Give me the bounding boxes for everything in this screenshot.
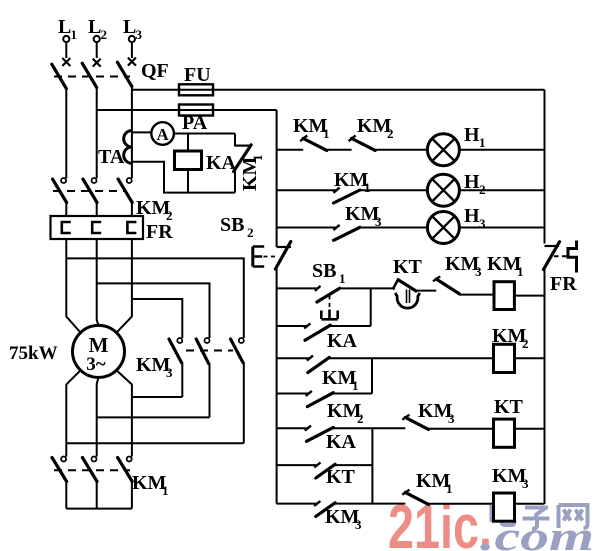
wire lamp row 1 <box>277 149 545 151</box>
node right control bus upper <box>544 90 546 244</box>
wire motor bottom terminal 1 <box>66 371 80 457</box>
svg-text:FU: FU <box>184 64 211 86</box>
contactor KM3 pole B <box>196 338 209 417</box>
contact KM1 NC row 1 <box>300 135 327 150</box>
wire KM3 pole B to motor branch <box>97 416 210 418</box>
contact KM2 NO row D label <box>327 400 364 426</box>
node L2 label <box>88 16 107 42</box>
svg-text:L: L <box>88 16 101 38</box>
node L1 label <box>58 16 77 42</box>
svg-text:H: H <box>464 205 480 227</box>
watermark chinese char dian <box>492 503 515 525</box>
lamp H2 <box>427 174 459 206</box>
svg-text:TA: TA <box>98 146 125 168</box>
svg-text:QF: QF <box>141 60 169 82</box>
contactor KM2 linkage dashed <box>53 190 126 192</box>
wire phase1 tap to KM3 pole C <box>66 258 244 338</box>
wire KA branch top <box>187 134 189 152</box>
terminal circle L3 <box>129 36 135 42</box>
thermal relay FR heater element 1 <box>62 222 71 233</box>
current transformer TA <box>124 131 132 164</box>
contact KM2 NC row 1 label <box>357 115 394 141</box>
node right control bus lower <box>544 270 546 505</box>
svg-text:KA: KA <box>326 431 357 453</box>
contact KM3 NO row G <box>314 501 335 517</box>
svg-text:2: 2 <box>522 336 529 351</box>
contact KA NO row B <box>304 323 330 340</box>
svg-text:A: A <box>156 125 169 144</box>
wire coil KM3 to right bus <box>515 503 545 505</box>
contact KM1 normally-closed vertical <box>234 134 252 193</box>
wire motor bottom terminal 3 <box>117 371 132 457</box>
svg-text:1: 1 <box>352 378 359 393</box>
contactor KM1 linkage dashed <box>54 469 130 471</box>
contactor KM2 pole 2 <box>83 178 97 216</box>
contact KM1 NO row C <box>307 356 330 373</box>
thermal overload relay FR box <box>51 216 144 239</box>
svg-text:KA: KA <box>206 152 237 174</box>
motor M circle <box>73 325 125 377</box>
svg-text:KT: KT <box>494 396 524 418</box>
contact KA NO row E <box>305 426 334 442</box>
wire phase3 tap to KM3 pole A <box>132 299 182 338</box>
wire phase1 QF to KM2 <box>65 88 67 178</box>
wire ammeter to KM1 branch <box>174 133 235 135</box>
wire phase3 FR to motor <box>117 239 132 332</box>
wire coil KT to right bus <box>515 428 545 430</box>
svg-text:SB: SB <box>312 260 336 282</box>
lamp H2 label <box>464 171 486 197</box>
contactor KM2 label <box>136 197 173 223</box>
wire motor bottom terminal 2 <box>97 377 99 456</box>
wire coil KM1 to right bus <box>514 295 544 297</box>
pushbutton SB2 normally-closed <box>253 242 291 270</box>
wire row G KM1 to coil KM3 <box>428 503 494 505</box>
svg-text:3: 3 <box>136 27 143 42</box>
contactor KM3 pole C <box>231 338 244 443</box>
svg-text:1: 1 <box>323 126 330 141</box>
wire row A start to SB1 <box>277 287 318 289</box>
wire L2 stub <box>96 42 98 58</box>
svg-text:KT: KT <box>393 256 423 278</box>
thermal relay FR contact on right bus <box>544 241 577 273</box>
wire phase2 QF to KM2 <box>96 87 98 178</box>
wire TA to ammeter <box>132 131 152 133</box>
contactor coil KM2 label <box>492 325 529 351</box>
svg-text:21ic.: 21ic. <box>388 493 492 551</box>
svg-text:1: 1 <box>162 483 169 498</box>
contactor coil KM3 <box>494 493 515 521</box>
contact KM1 NO row 2 <box>333 188 360 203</box>
contactor KM3 pole A <box>169 338 182 397</box>
fuse FU1 <box>179 84 213 95</box>
node left control bus <box>276 110 278 247</box>
pushbutton SB2 label <box>220 214 254 240</box>
relay coil KA <box>175 151 202 170</box>
contactor coil KM1 <box>494 282 514 310</box>
wire vertical V2 row C to row D <box>371 358 373 393</box>
time relay coil KT <box>494 419 515 447</box>
wire KM3 pole A to motor branch <box>132 396 182 398</box>
svg-text:3: 3 <box>479 216 486 231</box>
lamp H1 label <box>464 124 486 150</box>
wire row A SB1 to KT <box>339 287 395 289</box>
svg-text:1: 1 <box>517 264 524 279</box>
contact KM1 NC row G <box>402 490 428 505</box>
contact KM2 NO row D <box>306 391 334 407</box>
svg-text:3: 3 <box>166 365 173 380</box>
wire KM3 pole C to motor branch <box>66 442 244 444</box>
pushbutton SB1 normally-open <box>315 286 340 319</box>
wire row E KM3 to coil KT <box>428 428 494 430</box>
wire L1 stub <box>65 42 67 58</box>
svg-text:1: 1 <box>250 155 265 162</box>
contact KM1 NC row G label <box>416 470 453 496</box>
svg-text:1: 1 <box>446 481 453 496</box>
contact KM3 NC row E <box>402 415 428 430</box>
svg-text:KT: KT <box>326 466 356 488</box>
svg-text:3~: 3~ <box>86 354 106 375</box>
wire parallel branch vertical V1 <box>370 288 372 326</box>
contactor KM3 label <box>136 354 173 380</box>
wire row D KM2 <box>277 393 372 395</box>
wire phase2 tap to fuse FU2 <box>97 109 277 111</box>
terminal circle L2 <box>94 36 100 42</box>
thermal relay FR heater element 2 <box>92 222 101 233</box>
contactor KM3 linkage dashed <box>186 350 233 352</box>
pushbutton SB1 label <box>312 260 346 286</box>
wire row G KM3 contact <box>277 503 406 505</box>
time relay KT delayed closing contact <box>393 278 420 308</box>
wire L3 stub <box>131 42 133 58</box>
svg-text:FR: FR <box>550 273 577 295</box>
node L3 label <box>123 16 143 42</box>
svg-text:KA: KA <box>327 330 358 352</box>
contact KM1 NO row 2 label <box>334 169 371 195</box>
svg-text:1: 1 <box>339 271 346 286</box>
svg-text:1: 1 <box>479 135 486 150</box>
wire coil KM2 to right bus <box>515 357 545 359</box>
svg-text:1: 1 <box>364 180 371 195</box>
breaker QF pole 2 <box>82 59 101 88</box>
wire row B KA <box>277 325 371 327</box>
wire row C KM1 to coil KM2 <box>277 357 494 359</box>
contact KM3 NC row A <box>433 276 459 294</box>
contactor coil KM2 <box>494 344 515 372</box>
breaker QF pole 3 <box>117 58 135 87</box>
svg-text:3: 3 <box>355 517 362 532</box>
fuse FU2 <box>179 105 213 116</box>
lamp H3 <box>427 212 459 244</box>
contact KM1 NC row 1 label <box>293 115 330 141</box>
svg-text:H: H <box>464 124 480 146</box>
wire phase3 tap to fuse FU1 <box>132 89 545 91</box>
wire phase1 FR to motor <box>66 239 80 332</box>
wire lamp row 3 <box>277 227 545 229</box>
svg-text:3: 3 <box>375 214 382 229</box>
contactor KM2 pole 1 <box>53 178 67 216</box>
contact KM1 NO row C label <box>322 367 359 393</box>
wire phase2 FR to motor <box>97 239 99 325</box>
svg-text:3: 3 <box>448 411 455 426</box>
wire row F KT contact <box>277 464 373 466</box>
svg-text:3: 3 <box>475 264 482 279</box>
contactor KM1 label <box>132 472 169 498</box>
svg-text:H: H <box>464 171 480 193</box>
wire row A KT to KM3 <box>416 290 437 292</box>
wire row A KM3 to coil KM1 <box>459 294 494 296</box>
svg-text:2: 2 <box>101 27 108 42</box>
contact KM3 NO row 3 <box>333 225 360 240</box>
lamp H3 label <box>464 205 486 231</box>
contactor coil KM1 label <box>487 253 524 279</box>
contact KM3 NO row 3 label <box>345 203 382 229</box>
terminal circle L1 <box>63 36 69 42</box>
svg-text:L: L <box>58 16 71 38</box>
lamp H1 <box>427 134 459 166</box>
contact KM3 NC row E label <box>418 400 455 426</box>
wire phase2 tap to KM3 pole B <box>97 283 210 338</box>
svg-text:PA: PA <box>182 112 208 134</box>
watermark chinese char wang <box>559 505 588 528</box>
contact KM3 NO row G label <box>325 506 362 532</box>
contactor coil KM3 label <box>492 465 529 491</box>
contact KM3 NC row A label <box>445 253 482 279</box>
contactor KM1 pole 1 <box>52 457 67 509</box>
wire vertical V3 rows E F G <box>371 428 373 503</box>
svg-text:1: 1 <box>71 27 78 42</box>
watermark chinese char zi <box>523 508 550 530</box>
contact KM2 NC row 1 <box>349 135 376 150</box>
svg-text:3: 3 <box>522 476 529 491</box>
wire row E KA to KM3 <box>277 427 406 429</box>
svg-text:FR: FR <box>146 221 173 243</box>
wire TA secondary bottom <box>132 162 235 193</box>
breaker QF linkage dashed <box>54 76 130 78</box>
breaker QF pole 1 <box>52 58 71 89</box>
wire KM1 star bridge <box>66 508 132 510</box>
contact KT NO row F <box>314 463 335 479</box>
ammeter PA circle <box>151 122 174 145</box>
svg-text:SB: SB <box>220 214 244 236</box>
node left control bus lower <box>276 269 278 504</box>
svg-text:2: 2 <box>387 126 394 141</box>
svg-text:L: L <box>123 16 136 38</box>
wire phase3 QF to KM2 <box>131 86 133 178</box>
thermal relay FR heater element 3 <box>127 222 136 233</box>
svg-text:75kW: 75kW <box>9 343 58 364</box>
contact KM1 vertical label <box>239 155 265 192</box>
wire lamp row 2 <box>277 189 545 191</box>
wire KA branch bottom <box>187 170 189 193</box>
svg-text:2: 2 <box>247 225 254 240</box>
contactor KM2 pole 3 <box>118 178 132 216</box>
svg-text:2: 2 <box>479 182 486 197</box>
svg-text:2: 2 <box>357 411 364 426</box>
contactor KM1 pole 3 <box>118 457 133 509</box>
contactor KM1 pole 2 <box>82 457 97 509</box>
